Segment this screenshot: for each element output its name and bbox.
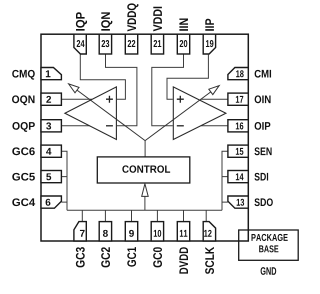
pin 5 box [41,171,61,183]
wire pin2 OQN from Q-amp output [61,98,92,100]
pin 22 number [128,40,136,47]
pin 16 label OIP [255,122,271,130]
pin 13 number [237,199,244,206]
pin 18 number [236,70,244,77]
pin 22 box [125,34,137,54]
pin 17 label OIN [255,95,271,103]
wire stub pin11 DVDD to bus [183,210,185,221]
pin 24 label IQP [76,12,87,30]
wire pin24 IQP to Q-amp + input [80,54,125,99]
gain arrowhead Q-amp (open) [69,84,79,93]
pin 6 box [41,196,61,208]
pin 7 box [74,222,86,241]
pin 2 label OQN [12,95,34,105]
pin 12 label SCLK [205,247,214,274]
U2 - input sign [177,125,184,127]
pin 18 label CMI [255,70,271,78]
pin 21 box [151,34,163,54]
pin 8 number [103,230,108,237]
pin 20 number [180,40,188,47]
pin 14 box [228,171,248,183]
pin 17 box [228,93,248,105]
pin 23 label IQN [101,12,112,30]
pin 2 number [46,96,51,103]
pin 1 label CMQ [12,70,35,80]
wire CONTROL output stem to gain-arrow junction [144,141,146,157]
pin 10 label GC0 [153,247,162,267]
pin 13 box [228,196,248,208]
wire stub pin12 SCLK to bus [205,210,207,221]
pin 3 box [41,120,61,132]
gain arrow shaft through I-amp [145,92,211,141]
pin 15 number [236,148,244,155]
pin 21 number [154,40,162,47]
gain arrow shaft through Q-amp [77,90,145,141]
pin 6 label GC4 [12,198,35,206]
pin 16 number [236,122,243,129]
pin 6 number [46,199,51,206]
U2 + input sign [177,96,184,103]
pin 15 box [228,145,248,157]
wire stub pin8 GC2 to bus [104,210,106,221]
wire stub pin7 GC3 to bus [81,210,83,221]
pin 1 box [41,68,61,80]
wire pin17 OIN from I-amp output [201,98,228,100]
CONTROL block [97,157,190,183]
wire control bus (bottom) [67,209,222,211]
wire pins 4,5,6 (GC6,GC5,GC4) left collector to bus [61,151,67,210]
op-amp U1 Q-channel VGA triangle [65,87,117,140]
pin 13 label SDO [254,198,272,206]
pin 1 number [46,70,51,77]
pin 11 label DVDD [179,247,188,273]
wire stub pin10 GC0 to bus [156,210,158,221]
arrowhead into CONTROL (open) [142,184,149,197]
package base (exposed pad) box [239,230,299,260]
pin 7 number [80,230,85,237]
pin 24 number [77,40,85,47]
pin 14 label SDI [254,173,268,181]
pin 5 number [46,173,51,180]
U1 + input sign [106,96,113,103]
wire pin23 IQN to Q-amp - input [106,54,137,126]
IC package outline [41,34,248,241]
wire pin16 OIP from I-amp output [201,125,228,127]
wire bus to control arrow shaft [144,196,146,210]
pin 24 box [74,34,86,54]
pin 21 label VDDI [153,7,162,32]
pin 11 box [177,222,189,241]
pin 9 box [125,222,137,241]
wire pins 15,14,13 (SEN,SDI,SDO) right collector to bus [222,151,228,210]
pin 3 number [46,122,51,129]
pin 17 number [236,96,243,103]
pin 8 box [99,222,111,241]
pin 18 box [228,68,248,80]
pin 23 number [102,40,110,47]
pin 20 label IIN [179,19,188,31]
pin 19 number [206,40,213,47]
pin 8 label GC2 [101,247,110,267]
pin 11 number [180,230,188,237]
pin 2 box [41,93,61,105]
pin 4 box [41,145,61,157]
pin 4 label GC6 [12,147,35,155]
wire stub pin9 GC1 to bus [131,210,133,221]
pin 10 number [154,230,161,237]
pin 14 number [236,173,244,180]
GND net label [261,267,277,275]
pin 12 number [204,230,211,237]
pin 19 label IIP [205,19,214,31]
pin 12 box [203,222,215,241]
wire pin20 IIN to I-amp - input [152,54,184,126]
pin 9 label GC1 [127,247,136,267]
pin 7 label GC3 [76,247,85,267]
pin 23 box [99,34,111,54]
pin 19 box [203,34,215,54]
pin 10 box [151,222,163,241]
pin 20 box [177,34,189,54]
pin 4 number [46,148,51,155]
gain arrowhead I-amp (open) [209,86,219,95]
wire pin19 IIP to I-amp + input [167,55,208,100]
pin 9 number [129,230,134,237]
pin 15 label SEN [254,147,271,155]
pin 22 label VDDQ [127,3,138,31]
U1 - input sign [106,125,113,127]
pin 5 label GC5 [12,173,35,181]
package base label [251,234,287,252]
op-amp U2 I-channel VGA triangle [173,87,226,140]
pin 16 box [228,120,248,132]
wire pin3 OQP from Q-amp output [61,125,89,127]
pin 3 label OQP [12,122,34,132]
